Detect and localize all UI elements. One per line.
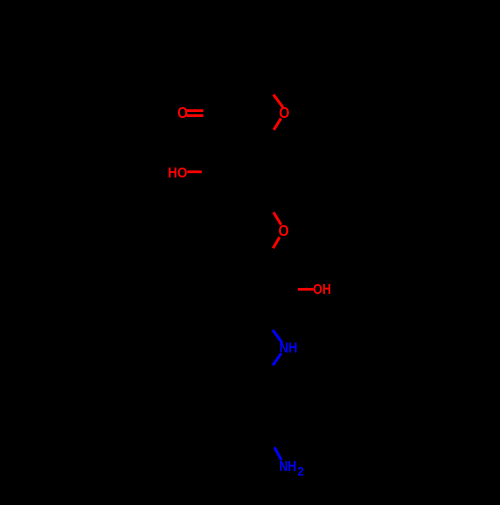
svg-text:2: 2 [298,467,304,479]
svg-text:NH: NH [279,458,296,475]
bond C-OH (red half) [298,288,314,291]
svg-text:OH: OH [313,281,331,298]
bond O1-C8a (red half) [274,118,281,129]
bond CH2-N (blue half, upper) [273,330,282,343]
bond O1-C2 (red half) [273,95,283,108]
bond O-CH2 (red half) [273,237,280,248]
bond CH2-NH2 (blue half) [274,447,281,460]
bond O-C7 (red half) [274,212,282,224]
svg-text:HO: HO [168,164,188,181]
bond N-CH2 (blue half, lower) [273,354,281,366]
bond HO-C5 (red half) [187,170,202,173]
double bond C4=O (red half) [187,111,204,116]
svg-text:NH: NH [279,340,297,357]
svg-text:O: O [177,105,188,122]
svg-text:O: O [278,223,289,240]
